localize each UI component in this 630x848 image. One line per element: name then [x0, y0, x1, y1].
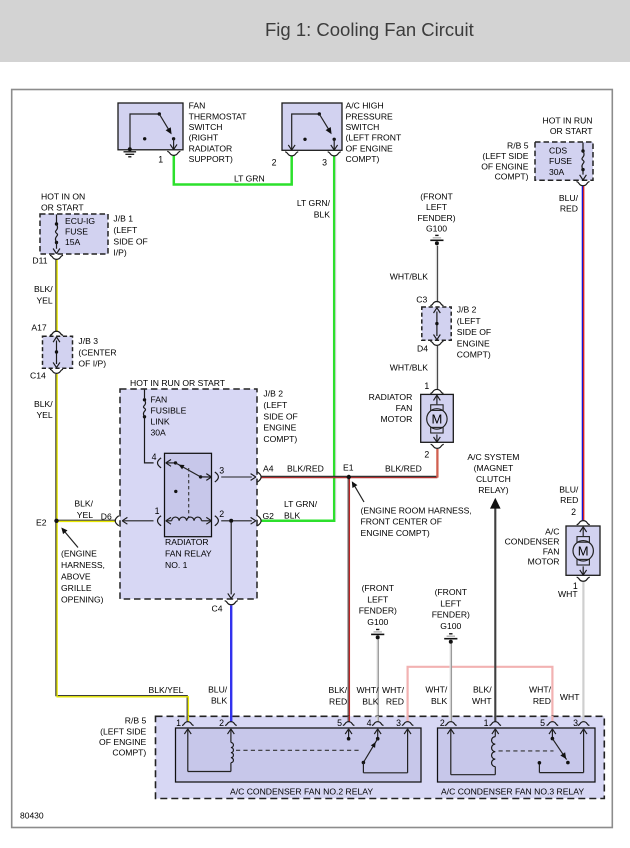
- svg-text:(LEFT SIDE: (LEFT SIDE: [100, 727, 146, 737]
- svg-text:3: 3: [219, 465, 224, 475]
- label BLU/BLK: [208, 684, 228, 705]
- svg-text:SWITCH: SWITCH: [189, 122, 223, 132]
- svg-text:BLK: BLK: [284, 510, 301, 520]
- svg-text:ENGINE: ENGINE: [457, 338, 490, 348]
- ground (thermostat switch): [124, 147, 137, 157]
- pin 1 (radiator fan relay): [155, 506, 162, 526]
- label WHT/BLK (mid): [390, 362, 428, 372]
- label (ENGINE HARNESS, ABOVE GRILLE OPENING): [61, 549, 105, 605]
- svg-text:YEL: YEL: [36, 410, 52, 420]
- svg-text:COMPT): COMPT): [346, 154, 380, 164]
- svg-text:J/B 2: J/B 2: [457, 305, 477, 315]
- relay RADIATOR FAN RELAY NO. 1 box: [165, 453, 212, 536]
- pin 3 (relay no.3): [539, 718, 589, 773]
- pin D4: [417, 341, 443, 353]
- label BLK/RED (left of E1): [287, 464, 324, 474]
- pin A4 (J/B 2): [258, 464, 274, 482]
- svg-text:FAN: FAN: [189, 101, 206, 111]
- pin (CDS fuse bottom): [576, 182, 589, 186]
- pin 1 (relay no.2): [176, 718, 194, 772]
- svg-text:WHT: WHT: [472, 696, 492, 706]
- svg-text:FAN: FAN: [151, 395, 168, 405]
- label J/B 3 (CENTER OF I/P): [78, 336, 116, 369]
- svg-text:FUSIBLE: FUSIBLE: [151, 406, 187, 416]
- svg-text:4: 4: [152, 452, 157, 462]
- svg-text:FUSE: FUSE: [65, 227, 88, 237]
- svg-text:ENGINE: ENGINE: [263, 423, 296, 433]
- svg-text:FAN RELAY: FAN RELAY: [165, 549, 212, 559]
- pin 5 (relay no.2): [337, 718, 354, 741]
- svg-text:J/B 2: J/B 2: [263, 389, 283, 399]
- svg-text:A/C HIGH: A/C HIGH: [346, 101, 384, 111]
- svg-text:LEFT: LEFT: [426, 202, 448, 212]
- label WHT/BLK (upper): [390, 271, 428, 281]
- annotation arrow to E1: [352, 481, 364, 502]
- svg-text:YEL: YEL: [77, 510, 93, 520]
- svg-text:C14: C14: [30, 371, 46, 381]
- svg-text:OF ENGINE: OF ENGINE: [346, 143, 394, 153]
- svg-text:BLK/: BLK/: [34, 284, 53, 294]
- motor M2 A/C condenser fan motor: [566, 526, 600, 575]
- svg-text:FENDER): FENDER): [359, 606, 397, 616]
- svg-text:CLUTCH: CLUTCH: [476, 474, 511, 484]
- label RADIATOR FAN MOTOR: [369, 392, 413, 424]
- svg-text:RADIATOR: RADIATOR: [189, 143, 233, 153]
- svg-text:LEFT: LEFT: [367, 594, 389, 604]
- label BLU/RED (at condenser motor): [559, 485, 579, 505]
- svg-text:SUPPORT): SUPPORT): [189, 154, 233, 164]
- svg-text:C3: C3: [416, 294, 427, 304]
- svg-text:YEL: YEL: [36, 296, 52, 306]
- label A/C CONDENSER FAN NO.3 RELAY: [441, 786, 584, 796]
- svg-text:OF ENGINE: OF ENGINE: [99, 737, 147, 747]
- svg-text:RED: RED: [329, 696, 347, 706]
- relay A/C CONDENSER FAN NO.2 RELAY box: [176, 728, 422, 782]
- label LT GRN: [234, 174, 265, 184]
- A/C high pressure switch SW2: [282, 103, 342, 150]
- svg-text:OR START: OR START: [41, 203, 84, 213]
- svg-text:(RIGHT: (RIGHT: [189, 133, 219, 143]
- svg-text:D6: D6: [101, 511, 112, 521]
- junction block J/B 2 (center, contains fan fusible link and radiator fan relay): [120, 389, 257, 599]
- svg-text:1: 1: [484, 718, 489, 728]
- svg-text:(FRONT: (FRONT: [435, 587, 468, 597]
- wire BLK/WHT (A/C system arrow down to relay no.3 pin1): [494, 508, 496, 721]
- svg-text:THERMOSTAT: THERMOSTAT: [189, 111, 248, 121]
- svg-text:WHT/BLK: WHT/BLK: [390, 362, 428, 372]
- diagram number 80430: [20, 811, 44, 821]
- svg-text:RED: RED: [560, 203, 578, 213]
- svg-text:(LEFT FRONT: (LEFT FRONT: [346, 133, 402, 143]
- pin 4 (radiator fan relay): [152, 452, 162, 468]
- svg-text:BLK/: BLK/: [329, 685, 348, 695]
- svg-text:BLK/: BLK/: [34, 399, 53, 409]
- pin 1 (thermostat switch): [158, 151, 180, 164]
- svg-text:RED: RED: [533, 696, 551, 706]
- svg-text:(ENGINE ROOM HARNESS,: (ENGINE ROOM HARNESS,: [361, 505, 472, 515]
- label BLK/RED (bottom): [329, 685, 348, 706]
- svg-text:E2: E2: [36, 517, 47, 527]
- svg-text:5: 5: [337, 718, 342, 728]
- svg-text:A/C SYSTEM: A/C SYSTEM: [467, 452, 519, 462]
- node E1: [343, 462, 354, 479]
- svg-text:5: 5: [540, 718, 545, 728]
- svg-text:SIDE OF: SIDE OF: [263, 411, 297, 421]
- svg-text:GRILLE: GRILLE: [61, 583, 92, 593]
- svg-text:1: 1: [155, 506, 160, 516]
- svg-text:80430: 80430: [20, 811, 44, 821]
- wire LT GRN (thermostat pin1 to pressure switch pin2): [174, 155, 292, 184]
- label (FRONT LEFT FENDER) G100 top: [417, 191, 455, 233]
- svg-text:2: 2: [272, 157, 277, 167]
- label (ENGINE ROOM HARNESS, FRONT CENTER OF ENGINE COMPT): [361, 505, 472, 538]
- svg-text:MOTOR: MOTOR: [380, 414, 412, 424]
- svg-text:ENGINE COMPT): ENGINE COMPT): [361, 528, 430, 538]
- label R/B 5 (LEFT SIDE OF ENGINE COMPT) bottom: [99, 715, 147, 757]
- label J/B 2 (LEFT SIDE OF ENGINE COMPT) center: [263, 389, 297, 444]
- svg-text:WHT/: WHT/: [529, 685, 552, 695]
- svg-text:RADIATOR: RADIATOR: [369, 392, 413, 402]
- svg-text:COMPT): COMPT): [457, 350, 491, 360]
- svg-text:A/C CONDENSER FAN NO.2 RELAY: A/C CONDENSER FAN NO.2 RELAY: [230, 786, 373, 796]
- wire pin3 to A4: [221, 474, 256, 481]
- pin 2 (relay no.3): [440, 718, 495, 775]
- pin 2 (radiator fan motor): [424, 444, 443, 459]
- svg-text:G100: G100: [367, 617, 388, 627]
- svg-text:M: M: [431, 411, 442, 426]
- wire BLU/BLK (C4 down to relay no.2 pin2): [230, 605, 232, 721]
- svg-text:BLK: BLK: [362, 696, 379, 706]
- svg-text:15A: 15A: [65, 237, 81, 247]
- svg-text:2: 2: [440, 718, 445, 728]
- svg-text:G100: G100: [440, 621, 461, 631]
- svg-text:BLK: BLK: [211, 696, 228, 706]
- wire BLK/YEL (D11 to A17): [56, 260, 57, 332]
- fuse ECU-IG FUSE 15A in J/B 1: [40, 214, 108, 254]
- svg-text:LT GRN/: LT GRN/: [284, 499, 318, 509]
- label WHT/BLK (relay2 pin4): [357, 685, 380, 706]
- relay no.2 coil-switch link: [236, 749, 362, 751]
- relay A/C CONDENSER FAN NO.3 RELAY box: [438, 728, 596, 782]
- svg-text:30A: 30A: [151, 428, 167, 438]
- svg-text:A/C CONDENSER FAN NO.3 RELAY: A/C CONDENSER FAN NO.3 RELAY: [441, 786, 584, 796]
- svg-text:WHT/BLK: WHT/BLK: [390, 271, 428, 281]
- svg-text:LINK: LINK: [151, 417, 170, 427]
- wire BLK/YEL branch (node E2 to D6): [57, 520, 116, 521]
- label BLK/YEL (bottom): [149, 685, 184, 695]
- svg-text:BLU/: BLU/: [559, 193, 579, 203]
- svg-text:Fig 1: Cooling Fan Circuit: Fig 1: Cooling Fan Circuit: [265, 19, 474, 40]
- pin 2 (A/C condenser fan motor): [571, 507, 590, 525]
- svg-text:HARNESS,: HARNESS,: [61, 560, 105, 570]
- svg-text:BLU/: BLU/: [208, 684, 228, 694]
- svg-text:J/B 1: J/B 1: [113, 214, 133, 224]
- title bar: [0, 0, 630, 62]
- svg-text:WHT: WHT: [558, 589, 578, 599]
- svg-text:HOT IN ON: HOT IN ON: [41, 191, 85, 201]
- svg-text:(CENTER: (CENTER: [78, 347, 116, 357]
- svg-text:RED: RED: [560, 495, 578, 505]
- pin D11: [32, 255, 63, 265]
- svg-text:BLK/YEL: BLK/YEL: [149, 685, 184, 695]
- label BLK/WHT (relay3 pin1): [472, 685, 492, 706]
- svg-text:1: 1: [176, 718, 181, 728]
- label BLU/RED (top): [559, 193, 579, 213]
- svg-text:LT GRN: LT GRN: [234, 174, 265, 184]
- pin 1 (relay no.3) and coil: [484, 718, 502, 775]
- svg-text:FAN: FAN: [543, 547, 560, 557]
- label HOT IN RUN OR START (right): [543, 115, 594, 136]
- svg-text:G2: G2: [263, 511, 275, 521]
- svg-text:WHT: WHT: [560, 692, 580, 702]
- svg-text:(LEFT: (LEFT: [457, 316, 482, 326]
- wire BLK/YEL (C14 down, across bottom, to relay no.2 pin1): [56, 374, 189, 722]
- label A/C CONDENSER FAN NO.2 RELAY: [230, 786, 373, 796]
- label (FRONT LEFT FENDER) G100 center: [359, 583, 397, 627]
- relay block R/B 5 (bottom): [156, 716, 605, 798]
- svg-text:BLK: BLK: [314, 209, 331, 219]
- svg-text:(MAGNET: (MAGNET: [474, 463, 514, 473]
- pin 3 (pressure switch): [322, 152, 341, 168]
- label BLK/YEL (lower): [34, 399, 53, 420]
- svg-text:R/B 5: R/B 5: [125, 715, 147, 725]
- label BLK/YEL (at E2-D6): [74, 499, 93, 521]
- svg-text:BLK/: BLK/: [473, 685, 492, 695]
- svg-text:FENDER): FENDER): [417, 213, 455, 223]
- svg-text:ECU-IG: ECU-IG: [65, 216, 95, 226]
- wire WHT/BLK (center G100 down to relay no.2 pin4): [377, 639, 378, 721]
- wire BLU/RED (CDS fuse down to A/C condenser fan motor pin2): [582, 186, 583, 520]
- pin C4 (J/B 2): [212, 601, 238, 614]
- svg-text:4: 4: [367, 718, 372, 728]
- label HOT IN ON OR START: [41, 191, 85, 212]
- label WHT (upper): [558, 589, 578, 599]
- label LT GRN/BLK (at G2): [284, 499, 318, 520]
- svg-text:COMPT): COMPT): [112, 748, 146, 758]
- svg-text:CDS: CDS: [549, 146, 567, 156]
- pin 2 (relay no.2) and coil: [188, 718, 237, 772]
- svg-text:BLU/: BLU/: [559, 485, 579, 495]
- svg-text:2: 2: [219, 509, 224, 519]
- svg-text:RADIATOR: RADIATOR: [165, 537, 209, 547]
- label J/B 2 (LEFT SIDE OF ENGINE COMPT) right: [457, 305, 491, 360]
- svg-text:SIDE OF: SIDE OF: [113, 236, 147, 246]
- wire BLK/RED (A4 to E1 to radiator fan motor pin2): [261, 449, 438, 478]
- svg-text:HOT IN RUN: HOT IN RUN: [543, 115, 593, 125]
- svg-text:LEFT: LEFT: [440, 598, 462, 608]
- svg-text:OPENING): OPENING): [61, 595, 104, 605]
- svg-text:G100: G100: [426, 224, 447, 234]
- svg-text:FENDER): FENDER): [432, 610, 470, 620]
- label J/B 1 (LEFT SIDE OF I/P): [113, 214, 147, 258]
- svg-text:WHT/: WHT/: [357, 685, 380, 695]
- svg-text:I/P): I/P): [113, 248, 127, 258]
- junction block J/B 2 (C3-D4): [422, 307, 451, 340]
- svg-text:COMPT): COMPT): [263, 434, 297, 444]
- svg-text:1: 1: [424, 381, 429, 391]
- pin 5 (relay no.3) and lever: [540, 718, 570, 765]
- svg-text:BLK/: BLK/: [74, 499, 93, 509]
- relay no.3 open contact: [538, 761, 542, 773]
- svg-text:A4: A4: [263, 464, 274, 474]
- label WHT/BLK (relay3 pin2): [425, 685, 448, 706]
- label WHT/RED (relay2 pin3): [382, 685, 405, 706]
- pin 3 (radiator fan relay): [215, 465, 225, 482]
- pin 1 (radiator fan motor): [424, 381, 443, 394]
- wire pin2 to G2 with C4 junction: [221, 517, 256, 524]
- svg-text:WHT/: WHT/: [425, 685, 448, 695]
- svg-text:2: 2: [571, 507, 576, 517]
- svg-text:2: 2: [424, 450, 429, 460]
- svg-text:NO. 1: NO. 1: [165, 560, 188, 570]
- pin 2 (pressure switch): [272, 152, 299, 168]
- svg-text:(LEFT: (LEFT: [113, 225, 138, 235]
- svg-text:LT GRN/: LT GRN/: [297, 198, 331, 208]
- annotation arrow to E2: [61, 528, 78, 548]
- wire tails into R/B 5 block: [187, 716, 583, 722]
- label (FRONT LEFT FENDER) G100 right: [432, 587, 470, 631]
- fan thermostat switch SW1: [118, 103, 183, 150]
- pin 2 (radiator fan relay): [215, 509, 225, 526]
- svg-text:E1: E1: [343, 462, 354, 472]
- fuse CDS FUSE 30A in R/B 5: [535, 142, 593, 180]
- ground G100 (front left fender) right: [444, 634, 457, 644]
- junction block J/B 3: [43, 336, 73, 368]
- node E2: [36, 517, 59, 527]
- label LT GRN/BLK (top): [297, 198, 331, 219]
- label A/C SYSTEM (MAGNET CLUTCH RELAY): [467, 452, 519, 495]
- relay no.1 switch contacts: [166, 460, 212, 518]
- label R/B 5 (LEFT SIDE OF ENGINE COMPT) top: [481, 141, 529, 182]
- wire WHT (A/C condenser fan motor pin1 down to relay no.3 pin3): [582, 582, 584, 722]
- svg-text:2: 2: [219, 718, 224, 728]
- fuse FAN FUSIBLE LINK 30A: [143, 390, 187, 463]
- svg-text:(ENGINE: (ENGINE: [61, 549, 97, 559]
- svg-text:3: 3: [573, 718, 578, 728]
- svg-text:M: M: [578, 543, 589, 558]
- wire pin2 down to C4: [228, 522, 235, 599]
- pin G2 (J/B 2): [258, 511, 275, 526]
- wire WHT/RED (relay no.2 pin3 up/over to relay no.3 pin5): [408, 667, 553, 722]
- svg-text:FRONT CENTER OF: FRONT CENTER OF: [361, 517, 442, 527]
- svg-text:OR START: OR START: [550, 126, 593, 136]
- svg-text:FAN: FAN: [396, 403, 413, 413]
- svg-text:30A: 30A: [549, 167, 565, 177]
- motor M1 radiator fan motor: [421, 394, 454, 442]
- svg-text:3: 3: [322, 157, 327, 167]
- pin 3 (relay no.2): [396, 718, 413, 773]
- svg-text:RELAY): RELAY): [478, 485, 509, 495]
- svg-text:ABOVE: ABOVE: [61, 572, 91, 582]
- svg-text:1: 1: [158, 155, 163, 165]
- svg-text:(LEFT: (LEFT: [263, 400, 288, 410]
- label A/C CONDENSER FAN MOTOR: [505, 526, 560, 566]
- label WHT (bottom): [560, 692, 580, 702]
- arrow to A/C system: [490, 498, 501, 509]
- svg-text:(FRONT: (FRONT: [362, 583, 395, 593]
- svg-text:OF ENGINE: OF ENGINE: [481, 161, 529, 171]
- label WHT/RED (relay3 pin5): [529, 685, 552, 706]
- svg-text:BLK: BLK: [431, 696, 448, 706]
- wire BLK/RED (node E1 down to relay no.2 pin5): [348, 477, 349, 722]
- svg-text:RED: RED: [386, 696, 404, 706]
- relay no.3 coil-switch link: [499, 750, 554, 752]
- svg-text:A/C: A/C: [545, 526, 559, 536]
- wire LT GRN/BLK (pressure switch pin3 down to relay G2): [261, 156, 336, 521]
- pin C14: [30, 369, 63, 380]
- svg-text:OF I/P): OF I/P): [78, 359, 106, 369]
- label FAN THERMOSTAT SWITCH: [189, 101, 248, 165]
- svg-text:WHT/: WHT/: [382, 685, 405, 695]
- pin A17: [31, 323, 63, 336]
- svg-text:D11: D11: [32, 256, 47, 266]
- svg-text:D4: D4: [417, 344, 428, 354]
- wire WHT/BLK (G100 to C3): [436, 246, 437, 303]
- svg-text:R/B 5: R/B 5: [507, 141, 529, 151]
- label A/C HIGH PRESSURE SWITCH: [346, 101, 402, 165]
- svg-text:SWITCH: SWITCH: [346, 122, 380, 132]
- pin 4 (relay no.2) and lever: [362, 718, 408, 773]
- svg-text:A17: A17: [31, 323, 47, 333]
- pin D6 (J/B 2): [101, 511, 119, 526]
- svg-text:3: 3: [396, 718, 401, 728]
- svg-text:C4: C4: [212, 603, 223, 613]
- ground G100 (front left fender) top: [430, 235, 443, 245]
- label RADIATOR FAN RELAY NO. 1: [165, 537, 212, 570]
- svg-text:HOT IN RUN OR START: HOT IN RUN OR START: [130, 378, 226, 388]
- label BLK/RED (right of E1): [385, 464, 422, 474]
- wire WHT/BLK (D4 to radiator fan motor pin1): [436, 346, 437, 389]
- ground G100 (front left fender) center: [371, 630, 384, 640]
- svg-text:MOTOR: MOTOR: [528, 557, 560, 567]
- wire WHT/BLK (right G100 down to relay no.3 pin2): [450, 644, 451, 722]
- pin C3: [416, 294, 443, 305]
- svg-text:CONDENSER: CONDENSER: [505, 536, 560, 546]
- svg-text:(LEFT SIDE: (LEFT SIDE: [482, 151, 528, 161]
- svg-text:PRESSURE: PRESSURE: [346, 111, 394, 121]
- svg-text:J/B 3: J/B 3: [78, 336, 98, 346]
- svg-text:(FRONT: (FRONT: [420, 191, 453, 201]
- svg-text:COMPT): COMPT): [495, 172, 529, 182]
- svg-text:BLK/RED: BLK/RED: [287, 464, 324, 474]
- pin 1 (A/C condenser fan motor): [573, 577, 590, 591]
- label HOT IN RUN OR START (center): [130, 378, 226, 388]
- relay no.1 coil: [166, 517, 212, 524]
- svg-text:BLK/RED: BLK/RED: [385, 464, 422, 474]
- label BLK/YEL (upper): [34, 284, 53, 306]
- svg-text:FUSE: FUSE: [549, 156, 572, 166]
- svg-text:SIDE OF: SIDE OF: [457, 327, 491, 337]
- wire D6 to pin1: [122, 517, 153, 524]
